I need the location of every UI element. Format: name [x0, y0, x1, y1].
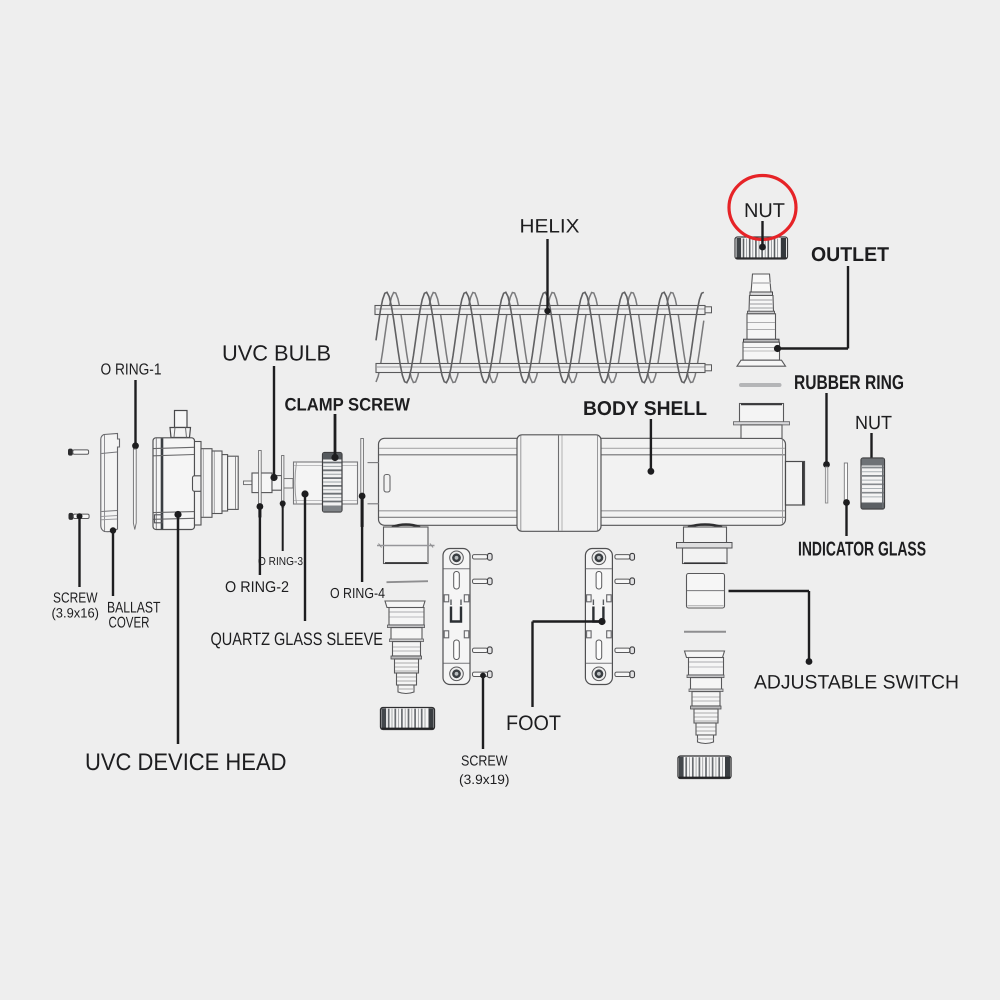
leader o-ring-4 [359, 493, 366, 582]
foot bracket right [585, 549, 612, 685]
svg-text:NUT: NUT [744, 200, 785, 222]
svg-text:OUTLET: OUTLET [811, 244, 889, 266]
rubber ring (under outlet) [739, 383, 782, 387]
body shell top port [734, 404, 790, 439]
body shell bottom-right port [677, 524, 733, 563]
svg-text:FOOT: FOOT [506, 712, 561, 735]
o-ring-1 edge view stick [133, 449, 136, 530]
svg-text:UVC DEVICE HEAD: UVC DEVICE HEAD [85, 749, 287, 776]
svg-text:RUBBER RING: RUBBER RING [794, 372, 904, 394]
leader adjustable switch [729, 591, 813, 665]
bracket screws left [473, 553, 493, 677]
nut (right, horizontal ribs) [861, 458, 885, 509]
nut (below inlet fitting) [381, 708, 435, 730]
helix coil strand front [376, 292, 704, 382]
svg-text:O RING-4: O RING-4 [330, 586, 385, 602]
body shell right end cap [786, 462, 805, 506]
nut (top, vertical ribs) [735, 237, 788, 259]
screw bottom-left [69, 513, 90, 520]
svg-text:(3.9x19): (3.9x19) [459, 772, 510, 787]
leader o-ring-2 [257, 503, 264, 575]
screw top-left [68, 449, 89, 456]
svg-text:INDICATOR GLASS: INDICATOR GLASS [798, 539, 926, 561]
svg-text:SCREW: SCREW [53, 591, 98, 607]
bracket screws right [615, 553, 635, 677]
leader rubber ring [823, 393, 830, 468]
leader o-ring-1 [132, 380, 139, 449]
svg-text:NUT: NUT [855, 413, 892, 434]
helix top rail [375, 306, 712, 315]
clamp screw part [323, 453, 343, 513]
leader outlet [774, 266, 848, 352]
uvc device head [153, 411, 238, 530]
svg-text:O RING-3: O RING-3 [258, 556, 303, 568]
leader nut top [759, 221, 766, 250]
o-ring-2 edge view stick [259, 451, 262, 518]
body shell middle band [517, 435, 601, 532]
leader body shell [648, 419, 655, 475]
leader o-ring-3 [280, 501, 286, 552]
leader nut right [868, 433, 875, 467]
body shell bottom-left port [377, 524, 435, 563]
o-ring-4 edge view stick [361, 439, 364, 527]
indicator glass (edge view) [844, 463, 847, 503]
svg-text:CLAMP SCREW: CLAMP SCREW [285, 395, 411, 415]
red circle highlight [729, 176, 796, 240]
uvc bulb [244, 473, 294, 493]
leader uvc device head [174, 511, 181, 744]
leader clamp screw [331, 414, 338, 461]
svg-text:SCREW: SCREW [461, 754, 508, 770]
leader quartz sleeve [301, 490, 308, 621]
svg-text:BODY SHELL: BODY SHELL [583, 398, 707, 420]
leader screw left [77, 513, 83, 587]
leader ballast cover [110, 527, 116, 596]
quartz glass sleeve [294, 462, 358, 504]
helix coil strand back [376, 293, 704, 383]
o-ring washer line (right) [684, 631, 726, 633]
svg-text:ADJUSTABLE SWITCH: ADJUSTABLE SWITCH [754, 672, 959, 694]
inlet fitting (below left port) [385, 601, 425, 694]
svg-text:COVER: COVER [109, 615, 150, 632]
outlet hose fitting [737, 274, 786, 366]
leader indicator glass [843, 499, 850, 536]
foot bracket left [443, 549, 470, 685]
svg-text:QUARTZ GLASS SLEEVE: QUARTZ GLASS SLEEVE [211, 629, 384, 649]
nut (below switch fitting) [678, 756, 731, 779]
body shell main tube [368, 438, 786, 525]
switch barb fitting [685, 651, 725, 744]
svg-text:O RING-1: O RING-1 [101, 362, 162, 379]
helix bottom rail [376, 364, 712, 373]
ballast cover [101, 434, 120, 532]
o-ring-3 edge view stick [282, 456, 284, 508]
svg-text:HELIX: HELIX [520, 216, 580, 238]
leader foot [533, 618, 606, 707]
svg-text:UVC BULB: UVC BULB [222, 341, 331, 366]
leader uvc bulb [270, 366, 277, 481]
svg-text:(3.9x16): (3.9x16) [52, 606, 100, 621]
o-ring washer line (left) [387, 581, 429, 582]
leader helix [544, 239, 550, 314]
rubber ring edge view (right) [825, 467, 827, 503]
adjustable switch body [687, 574, 725, 609]
leader screw right [480, 673, 486, 749]
svg-text:O RING-2: O RING-2 [225, 579, 289, 596]
